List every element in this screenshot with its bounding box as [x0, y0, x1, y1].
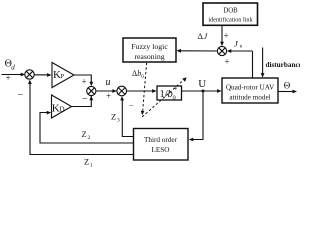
- label KD: [52, 102, 65, 114]
- wire junction2 to u junction: [96, 90, 113, 92]
- svg-text:Z: Z: [82, 129, 87, 139]
- node summing junction 1: [25, 70, 34, 79]
- block quad-rotor UAV attitude model: [222, 78, 278, 103]
- svg-text:attitude model: attitude model: [229, 93, 270, 101]
- node summing junction u: [117, 86, 127, 96]
- svg-text:0: 0: [173, 95, 176, 102]
- wire DOB to junction J: [221, 26, 223, 44]
- wire J* into junction J: [231, 50, 253, 52]
- amplifier KP: [52, 63, 74, 88]
- label third order LESO text: [144, 136, 178, 154]
- block DOB identification link: [203, 3, 258, 25]
- label Z3: [111, 112, 120, 124]
- svg-text:identification link: identification link: [208, 17, 253, 24]
- block third order LESO: [134, 129, 189, 161]
- svg-text:*: *: [174, 86, 178, 94]
- svg-text:P: P: [61, 73, 65, 80]
- wire disturbance arrow: [262, 48, 264, 75]
- node U branch dot: [202, 90, 205, 93]
- wire Z3 from LESO to u junction: [122, 100, 133, 137]
- wire Z2 from LESO to KD: [40, 113, 134, 144]
- wire 1/b0 to UAV model: [182, 90, 218, 92]
- block 1/b0: [157, 86, 182, 100]
- svg-text:−: −: [129, 101, 134, 110]
- amplifier KD: [52, 95, 72, 118]
- svg-text:+: +: [6, 73, 11, 83]
- label DOB identification link text: [208, 8, 253, 24]
- wire junction J to fuzzy block: [180, 50, 217, 52]
- svg-text:Fuzzy logic: Fuzzy logic: [131, 42, 168, 51]
- svg-text:U: U: [198, 78, 206, 90]
- wire U branch down to LESO: [193, 91, 203, 140]
- label J-star: [234, 39, 243, 50]
- svg-text:disturbance: disturbance: [266, 61, 301, 69]
- wire KD to junction2: [72, 96, 92, 107]
- label Z1: [84, 157, 93, 169]
- svg-text:Third order: Third order: [144, 136, 178, 144]
- svg-text:Z: Z: [111, 112, 116, 122]
- svg-text:−: −: [82, 94, 88, 105]
- label fuzzy logic reasoning text: [131, 42, 168, 61]
- svg-text:u: u: [106, 77, 111, 88]
- svg-text:DOB: DOB: [223, 8, 238, 15]
- wire u junction to 1/b0 block: [127, 90, 154, 92]
- wire input Theta_d: [2, 74, 22, 76]
- label delta b0: [132, 69, 144, 80]
- wire junction1 to KP: [34, 74, 47, 76]
- label quad-rotor UAV attitude model text: [226, 83, 275, 101]
- block fuzzy logic reasoning: [123, 38, 176, 62]
- wire KP to junction2: [74, 75, 91, 82]
- label Theta_d: [5, 59, 16, 72]
- svg-text:Θ: Θ: [284, 81, 291, 91]
- svg-text:d: d: [11, 64, 15, 72]
- wire Z1 from LESO to junction1: [30, 83, 134, 154]
- svg-text:reasoning: reasoning: [134, 52, 164, 61]
- label KP: [53, 69, 65, 81]
- svg-text:+: +: [82, 77, 87, 87]
- wire dashed delta-b0 from fuzzy down: [143, 63, 147, 111]
- svg-text:1: 1: [90, 163, 93, 168]
- svg-text:+: +: [224, 31, 229, 41]
- label 1/b0 inside block: [160, 86, 178, 102]
- svg-text:3: 3: [117, 118, 120, 124]
- svg-text:LESO: LESO: [152, 146, 170, 154]
- node summing junction 2: [87, 86, 96, 95]
- svg-text:1/: 1/: [160, 89, 168, 100]
- svg-text:Z: Z: [84, 157, 89, 167]
- svg-text:+: +: [225, 57, 230, 67]
- wire output Theta: [278, 91, 293, 93]
- label Z2: [82, 129, 91, 141]
- svg-text:2: 2: [88, 135, 91, 141]
- svg-text:+: +: [106, 91, 111, 101]
- svg-text:Quad-rotor UAV: Quad-rotor UAV: [226, 83, 275, 91]
- node summing junction J: [217, 46, 226, 55]
- svg-text:D: D: [60, 105, 65, 113]
- label delta J: [198, 31, 209, 41]
- svg-text:−: −: [18, 90, 24, 101]
- wire dashed tuning arrow through 1/b0: [142, 80, 183, 117]
- wire J* feedback vertical: [252, 51, 254, 78]
